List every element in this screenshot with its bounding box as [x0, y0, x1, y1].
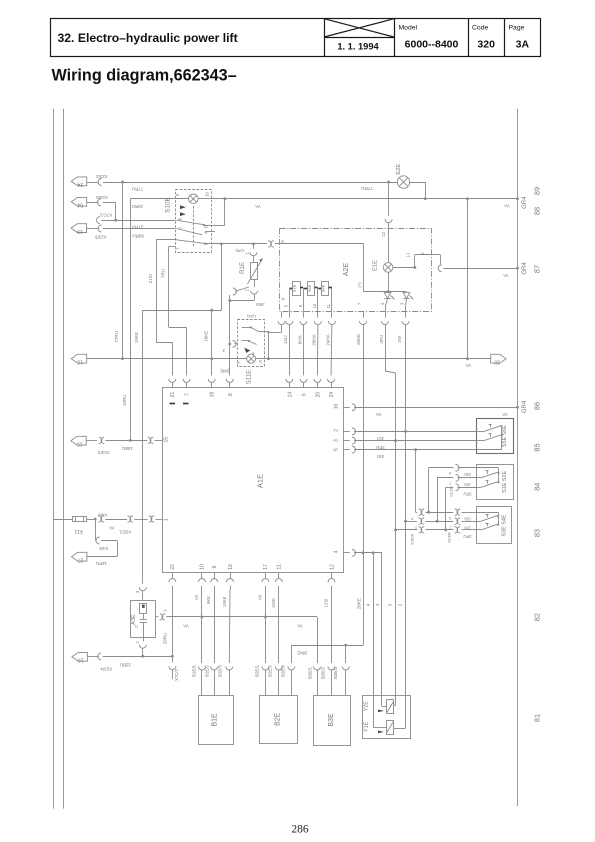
connector arrow 20 right — [491, 354, 506, 363]
svg-text:3: 3 — [204, 242, 209, 245]
svg-text:X7C/1: X7C/1 — [99, 213, 112, 218]
wire 77RU top — [87, 182, 99, 184]
wire 9KE to B1E/2 — [214, 589, 216, 663]
wire line 10 long horizontal — [87, 358, 247, 360]
wire 2VI to S1E (pin 7) — [437, 477, 453, 479]
svg-text:18: 18 — [210, 392, 216, 398]
svg-text:B2E/1: B2E/1 — [255, 664, 260, 677]
svg-text:10: 10 — [205, 192, 210, 197]
svg-text:82: 82 — [532, 613, 541, 621]
svg-text:14: 14 — [287, 392, 293, 398]
svg-text:24: 24 — [329, 392, 335, 398]
svg-text:286: 286 — [291, 824, 309, 836]
wire 3PU X14/8 row — [396, 529, 418, 531]
svg-text:Wiring diagram,662343–: Wiring diagram,662343– — [52, 67, 237, 85]
wire 19KE drop to A3E — [142, 310, 144, 584]
svg-text:90RU: 90RU — [132, 234, 144, 239]
svg-text:B1E: B1E — [212, 713, 219, 727]
svg-text:19KE: 19KE — [222, 596, 227, 606]
control unit A2E — [280, 229, 432, 312]
lamp E1E — [388, 229, 390, 263]
wire 20HA A2E pin10 to A1E pin20 — [317, 312, 319, 318]
wire 3PU to S1E (X12/8) — [446, 487, 454, 489]
A3E pin 1 wire VA — [156, 616, 159, 618]
wire S10E pin1 drop 21SI — [156, 239, 175, 241]
svg-text:77RU: 77RU — [361, 186, 373, 191]
wire A2E pin9 to line 10 — [281, 312, 283, 318]
svg-text:E1E: E1E — [373, 260, 379, 271]
svg-text:Y1E: Y1E — [364, 721, 370, 732]
wire 15RU drop to line 15 — [130, 199, 132, 441]
svg-text:B1E/2: B1E/2 — [205, 664, 210, 677]
wire 2VI X2E/8 pin7 row — [406, 521, 418, 523]
wire node 18KE horizontal — [143, 310, 222, 312]
svg-text:VA: VA — [502, 412, 507, 417]
svg-text:85: 85 — [532, 443, 541, 451]
wire 17 VA to B2E/1 — [265, 589, 267, 663]
svg-text:5SI: 5SI — [464, 472, 470, 477]
svg-text:S5E S6E: S5E S6E — [502, 425, 508, 447]
svg-text:17: 17 — [263, 564, 269, 570]
svg-text:2VI: 2VI — [397, 336, 402, 343]
svg-text:29SI: 29SI — [256, 302, 265, 307]
svg-text:8: 8 — [228, 393, 234, 396]
svg-text:10: 10 — [200, 564, 206, 570]
svg-text:2: 2 — [244, 288, 249, 291]
wire 21SI to A1E pin 21 — [156, 342, 172, 344]
svg-text:E2E: E2E — [396, 164, 402, 175]
svg-text:2: 2 — [333, 429, 339, 432]
svg-text:A1E: A1E — [256, 474, 265, 488]
svg-text:B2E/2: B2E/2 — [268, 664, 273, 677]
svg-text:X2E/8: X2E/8 — [409, 533, 414, 545]
svg-text:21SI: 21SI — [148, 274, 153, 283]
wire E1E to pin 2 out — [393, 267, 415, 269]
svg-text:12: 12 — [329, 564, 335, 570]
svg-text:GR4: GR4 — [522, 196, 528, 209]
svg-text:2: 2 — [420, 252, 425, 255]
svg-text:R1E: R1E — [240, 262, 246, 274]
connector arrow 15 (X23/3) — [71, 436, 86, 445]
svg-text:Y2E: Y2E — [364, 701, 370, 712]
svg-text:26KE: 26KE — [356, 334, 361, 345]
svg-text:18KE: 18KE — [203, 331, 208, 342]
svg-text:A3E: A3E — [131, 614, 137, 625]
svg-text:29RU: 29RU — [163, 633, 168, 645]
svg-text:(+): (+) — [357, 282, 362, 288]
svg-text:4: 4 — [380, 302, 385, 305]
wire VA mid to frame — [438, 265, 441, 272]
connector arrow 10 — [71, 354, 86, 363]
wire 5SI X2E/8 pin9 row — [415, 450, 417, 513]
reed switch S9E — [318, 282, 332, 296]
svg-text:GR4: GR4 — [522, 262, 528, 275]
svg-text:7RU: 7RU — [161, 269, 166, 278]
switch box S5E S6E — [476, 419, 513, 454]
svg-text:20: 20 — [315, 392, 321, 398]
svg-text:10: 10 — [77, 359, 83, 365]
svg-text:B2E: B2E — [274, 712, 281, 726]
svg-text:B1E/3: B1E/3 — [218, 664, 223, 677]
svg-text:3: 3 — [222, 348, 225, 353]
svg-text:12: 12 — [381, 231, 386, 237]
svg-text:9KE: 9KE — [206, 596, 211, 604]
svg-text:88: 88 — [532, 207, 541, 215]
svg-text:GR4: GR4 — [522, 400, 528, 413]
svg-text:1: 1 — [162, 609, 167, 612]
svg-text:77RU: 77RU — [114, 331, 119, 343]
svg-text:27: 27 — [77, 557, 83, 563]
svg-text:S9E: S9E — [321, 284, 326, 292]
svg-text:Model: Model — [399, 25, 418, 32]
svg-text:6: 6 — [280, 240, 285, 243]
svg-text:4: 4 — [375, 603, 380, 606]
svg-text:64: 64 — [77, 202, 83, 208]
svg-text:20: 20 — [494, 359, 500, 365]
svg-text:15: 15 — [77, 441, 83, 447]
svg-text:6HA: 6HA — [297, 335, 302, 344]
sensor unit B1E — [199, 696, 234, 745]
connector arrow 19 bottom (X23/4) — [72, 652, 87, 661]
wire 12SI to B3E/2 — [331, 589, 333, 663]
wire 2VI A2E pin3 down — [405, 312, 407, 318]
svg-text:S11E: S11E — [247, 370, 253, 384]
svg-text:X14/8: X14/8 — [447, 532, 452, 543]
switch box S3E S4E — [477, 507, 512, 544]
svg-text:6: 6 — [302, 393, 308, 396]
svg-text:9: 9 — [411, 516, 414, 521]
svg-text:5SI: 5SI — [464, 516, 470, 521]
svg-text:B2E/3: B2E/3 — [281, 664, 286, 677]
wire VA top line — [212, 198, 518, 200]
wire S10E pin7 drop 7RU — [169, 246, 175, 248]
svg-text:VA: VA — [465, 363, 470, 368]
fuse F11 — [73, 516, 87, 534]
svg-text:X23/4: X23/4 — [100, 666, 112, 671]
svg-text:S7E: S7E — [292, 284, 297, 292]
svg-text:19KE: 19KE — [134, 332, 139, 343]
svg-text:3: 3 — [399, 302, 404, 305]
wire X4/8 to A1E pin 1 — [87, 519, 94, 521]
svg-text:S8E: S8E — [307, 284, 312, 292]
svg-text:2: 2 — [397, 603, 402, 606]
wire 15BU to A1E pin 15 — [86, 440, 97, 442]
svg-text:16PU: 16PU — [96, 561, 107, 566]
svg-text:6: 6 — [177, 217, 182, 220]
svg-text:1: 1 — [164, 518, 170, 521]
svg-text:3PU: 3PU — [463, 491, 471, 496]
page frame lines — [53, 109, 55, 809]
svg-text:15: 15 — [164, 437, 170, 443]
wire 6HA A2E pin8 to A1E pin6 — [303, 312, 305, 318]
fuse F11 row — [53, 519, 72, 521]
svg-text:B3E/1: B3E/1 — [307, 666, 312, 679]
wire pin3 drop to node 310 — [221, 244, 223, 310]
svg-text:11: 11 — [277, 564, 283, 569]
svg-text:1(46): 1(46) — [246, 314, 256, 319]
wire 77RU drop to line 10 — [122, 182, 124, 359]
svg-text:B3E: B3E — [328, 713, 335, 727]
svg-text:X2E/1: X2E/1 — [119, 530, 132, 535]
LED diode pin4 — [380, 272, 395, 312]
svg-text:X7C/2: X7C/2 — [174, 669, 179, 681]
svg-text:B1E/1: B1E/1 — [192, 664, 197, 677]
svg-text:7: 7 — [184, 393, 190, 396]
LED diode pin3 — [399, 293, 413, 312]
connector arrow 24 (X23/2) — [71, 177, 86, 186]
svg-text:22: 22 — [170, 564, 176, 570]
svg-text:5: 5 — [333, 448, 339, 451]
wire VA to B3E/1 — [317, 617, 319, 663]
svg-text:11: 11 — [326, 303, 331, 308]
wire VA drop right — [467, 199, 469, 359]
wire 26KE A2E pin7 down — [363, 312, 365, 318]
svg-text:9: 9 — [237, 361, 241, 363]
connector arrow 64 (X23/6) — [71, 197, 86, 206]
svg-text:32. Electro–hydraulic power li: 32. Electro–hydraulic power lift — [58, 31, 238, 45]
wire 18KE to A1E pin 18 — [211, 310, 213, 375]
svg-text:7: 7 — [357, 302, 362, 305]
svg-text:X23/5: X23/5 — [94, 235, 106, 240]
svg-text:B3E/2: B3E/2 — [320, 666, 325, 679]
wire S10E pin5 to VA line — [212, 225, 225, 227]
svg-text:3PU: 3PU — [463, 534, 471, 539]
svg-text:14LI: 14LI — [283, 335, 288, 344]
svg-text:15RU: 15RU — [132, 204, 144, 209]
wire 11KE to B2E/2 — [278, 589, 280, 663]
svg-text:X4/8: X4/8 — [97, 512, 107, 517]
sensor unit B3E — [314, 696, 351, 746]
svg-text:(-): (-) — [406, 252, 411, 257]
svg-text:Page: Page — [509, 25, 525, 32]
wire 12 from 77RU to A2E — [388, 182, 390, 216]
wire 15RU horizontal — [130, 198, 188, 200]
svg-text:4: 4 — [333, 550, 339, 553]
connector X7C/2 — [172, 656, 174, 662]
svg-text:VA: VA — [255, 204, 260, 209]
svg-text:B3E/3: B3E/3 — [333, 666, 338, 679]
A1E top pin connectors — [169, 379, 176, 383]
svg-text:A2E: A2E — [343, 263, 350, 277]
A3E pin 3 connector — [139, 587, 146, 591]
header table — [51, 19, 541, 57]
svg-text:3A: 3A — [516, 38, 530, 50]
svg-text:2VI: 2VI — [464, 482, 470, 487]
svg-text:12SI: 12SI — [323, 599, 328, 608]
diode bus — [364, 291, 407, 293]
connector arrow 27 — [72, 552, 87, 561]
svg-text:(6): (6) — [109, 526, 115, 531]
svg-text:S3E S4E: S3E S4E — [501, 514, 507, 536]
svg-text:S1E S2E: S1E S2E — [502, 471, 508, 493]
A1E bottom pin connectors — [172, 573, 174, 579]
svg-text:20HA: 20HA — [311, 334, 316, 345]
svg-text:89: 89 — [532, 187, 541, 195]
svg-text:8: 8 — [298, 304, 303, 307]
reed switch S7E — [289, 282, 303, 296]
svg-text:1. 1. 1994: 1. 1. 1994 — [337, 41, 379, 51]
A2E internal pin leads — [289, 288, 291, 312]
switch S10E — [164, 190, 214, 253]
svg-text:19: 19 — [228, 564, 234, 570]
svg-text:VA: VA — [194, 595, 199, 600]
svg-text:77RU: 77RU — [132, 186, 144, 191]
wire 64 to X7C/1 line — [87, 202, 99, 204]
wire X4/5 branch to arrow 27 — [95, 519, 97, 541]
wire to B2E/3 — [291, 645, 293, 663]
svg-text:3: 3 — [333, 439, 339, 442]
svg-text:81: 81 — [532, 714, 541, 722]
switch S11E — [237, 314, 269, 384]
wire 3PU A2E pin4 down — [385, 312, 387, 318]
svg-text:2: 2 — [135, 641, 140, 644]
wire E2E to VA line — [409, 182, 425, 184]
wire 29SI / (W8) to A1E pin 8 — [229, 295, 231, 375]
svg-text:4: 4 — [365, 603, 370, 606]
svg-text:3PU: 3PU — [379, 335, 384, 344]
svg-text:3: 3 — [135, 590, 140, 593]
wire 24HA A2E pin11 to A1E pin24 — [331, 312, 333, 318]
wire pin4 to Y1E — [381, 553, 383, 706]
svg-text:1(48): 1(48) — [235, 248, 245, 253]
wire 14LI A2E pin5 to A1E pin14 — [289, 312, 291, 318]
svg-text:15RU: 15RU — [122, 395, 127, 407]
svg-text:C: C — [134, 625, 139, 628]
svg-text:9: 9 — [448, 471, 451, 476]
wire 22BU — [88, 656, 99, 658]
A3E pin 2 connector — [143, 637, 145, 641]
svg-text:87: 87 — [532, 265, 541, 273]
svg-text:21: 21 — [170, 392, 176, 398]
svg-text:X23/3: X23/3 — [98, 450, 110, 455]
svg-text:10: 10 — [259, 360, 263, 364]
wire 19KE to B1E/3 — [228, 589, 231, 663]
connector arrow 19 (X23/5) — [71, 224, 86, 233]
control unit A1E — [163, 388, 344, 573]
potentiometer R1E — [230, 244, 265, 307]
svg-text:6000--8400: 6000--8400 — [405, 38, 459, 50]
wire VA A1E pin10 to B1E/1 — [201, 589, 203, 663]
svg-text:10: 10 — [312, 303, 317, 308]
svg-text:S10E: S10E — [164, 197, 171, 213]
svg-text:5: 5 — [283, 304, 288, 307]
svg-text:22BU: 22BU — [120, 663, 131, 668]
svg-text:VA: VA — [376, 412, 381, 417]
svg-text:VA: VA — [183, 624, 188, 629]
svg-text:19: 19 — [77, 228, 83, 234]
svg-text:83: 83 — [532, 529, 541, 537]
wire 28KE horizontal — [291, 645, 363, 647]
svg-text:5SI: 5SI — [377, 454, 384, 459]
svg-text:86: 86 — [532, 402, 541, 410]
svg-text:Code: Code — [472, 25, 488, 32]
svg-text:VA: VA — [297, 624, 302, 629]
switch box S1E S2E — [476, 465, 513, 500]
svg-text:19: 19 — [78, 657, 84, 663]
wire S11E pin3 left stub — [235, 343, 238, 345]
svg-text:9: 9 — [448, 516, 451, 521]
svg-text:24HA: 24HA — [325, 334, 330, 345]
svg-text:9: 9 — [280, 297, 285, 300]
svg-text:16: 16 — [333, 404, 339, 410]
svg-text:VA: VA — [504, 203, 509, 208]
svg-text:X23/6: X23/6 — [96, 195, 108, 200]
lamp E2E — [397, 176, 409, 188]
reed switch S8E — [304, 282, 318, 296]
svg-text:320: 320 — [477, 38, 495, 50]
svg-text:X12/8: X12/8 — [448, 486, 453, 497]
svg-text:11KE: 11KE — [271, 598, 276, 608]
svg-text:15BU: 15BU — [122, 446, 133, 451]
sensor unit B2E — [260, 696, 298, 744]
svg-text:VA: VA — [257, 595, 262, 600]
wire 90RU to S10E pin 2 — [87, 228, 100, 230]
svg-text:7: 7 — [448, 481, 451, 486]
svg-text:9: 9 — [212, 565, 218, 568]
svg-text:28KE: 28KE — [357, 598, 362, 609]
wire 5SI to S1E (pin 9) — [429, 467, 454, 469]
svg-text:84: 84 — [532, 483, 541, 491]
wire 7RU to A1E pin 7 — [169, 327, 187, 329]
wire S10E pin3 to A2E pin6 — [212, 243, 267, 245]
svg-text:28KE: 28KE — [297, 650, 307, 655]
wire to B3E/3 — [345, 645, 347, 663]
svg-text:3: 3 — [387, 603, 392, 606]
svg-text:X23/2: X23/2 — [96, 174, 108, 179]
svg-text:VA: VA — [503, 273, 508, 278]
svg-text:24: 24 — [77, 181, 83, 187]
svg-text:(W8): (W8) — [220, 369, 230, 374]
wire 29RU A1E pin22 to 22BU — [172, 589, 174, 656]
unit A3E — [131, 601, 156, 638]
svg-text:X4/5: X4/5 — [99, 546, 109, 551]
valve unit Y1E Y2E — [363, 696, 411, 739]
svg-text:F11: F11 — [74, 528, 82, 534]
